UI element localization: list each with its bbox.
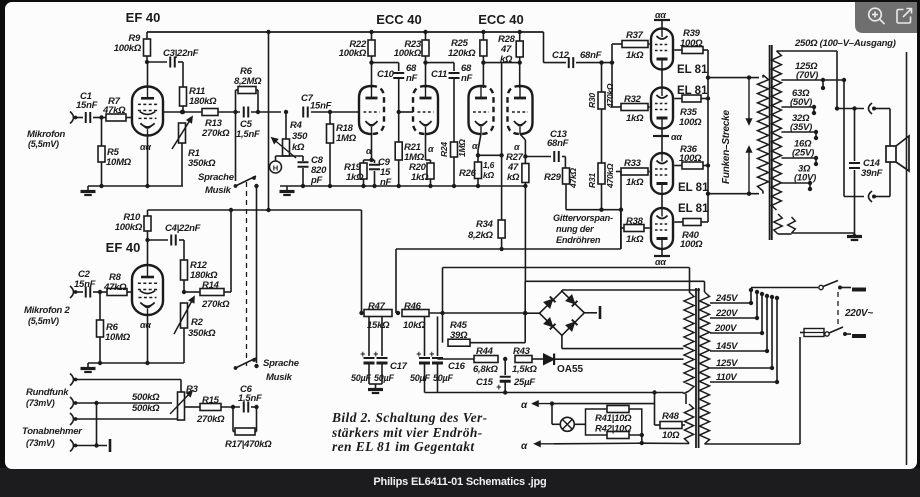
wire R48 tap <box>654 393 656 426</box>
resistor R32 1kOhm <box>621 104 648 111</box>
svg-text:8,2MΩ: 8,2MΩ <box>234 76 262 87</box>
microphone input jack 1 <box>70 112 74 124</box>
svg-text:R34: R34 <box>476 219 494 230</box>
svg-text:100kΩ: 100kΩ <box>339 48 367 59</box>
resistor R17 470kOhm (parallel) <box>232 407 234 432</box>
wire R9 to anode node <box>146 56 148 62</box>
svg-text:R30: R30 <box>587 93 597 108</box>
svg-text:ECC 40: ECC 40 <box>478 12 524 27</box>
capacitor C8 820pF <box>286 155 303 157</box>
svg-text:R14: R14 <box>202 280 220 291</box>
capacitor C12 68nF <box>544 62 567 64</box>
svg-text:C17: C17 <box>390 361 408 372</box>
capacitor C11 68nF <box>426 62 455 64</box>
svg-text:(25V): (25V) <box>792 148 814 159</box>
svg-text:1MΩ: 1MΩ <box>336 133 357 144</box>
svg-text:Endröhren: Endröhren <box>556 235 601 245</box>
resistor R47 15kOhm <box>364 310 392 317</box>
svg-text:Musik: Musik <box>205 185 232 196</box>
wire bias rail y=209.7 <box>566 209 621 211</box>
wire top bus drop to C12 <box>543 32 545 63</box>
mains terminal upper <box>852 288 866 292</box>
wire cathode ground bus stage1 <box>88 185 183 187</box>
svg-text:120kΩ: 120kΩ <box>448 48 476 59</box>
output jack upper <box>837 108 864 110</box>
svg-text:α: α <box>521 441 528 452</box>
capacitor C10 68nF <box>372 62 399 64</box>
resistor R40 100Ohm <box>674 221 683 223</box>
svg-text:39Ω: 39Ω <box>450 330 468 341</box>
svg-text:(5,5mV): (5,5mV) <box>28 316 59 326</box>
wire selector to mains switch <box>751 287 818 289</box>
resistor R48 10Ohm <box>660 422 682 429</box>
svg-text:10kΩ: 10kΩ <box>403 320 426 331</box>
svg-text:R47: R47 <box>368 301 386 312</box>
svg-text:(5,5mV): (5,5mV) <box>28 139 59 149</box>
svg-text:1,5kΩ: 1,5kΩ <box>512 364 537 375</box>
svg-text:Bild 2. Schaltung des Ver-: Bild 2. Schaltung des Ver- <box>331 410 488 425</box>
output transformer secondary winding <box>772 51 782 210</box>
svg-text:R42|10Ω: R42|10Ω <box>595 424 632 435</box>
svg-text:kΩ: kΩ <box>292 142 305 153</box>
cathode V4a with R26 <box>478 134 481 150</box>
wire plate rail upper <box>707 50 709 222</box>
cathode V3b with R20 <box>425 134 427 160</box>
microphone 2 input jack <box>70 286 74 298</box>
svg-text:100kΩ: 100kΩ <box>115 222 143 233</box>
svg-text:180kΩ: 180kΩ <box>189 96 217 107</box>
svg-text:nF: nF <box>461 73 473 84</box>
triode V3a ECC40 <box>359 86 372 134</box>
potentiometer R1 350kOhm <box>179 123 186 143</box>
resistor R21 1MOhm <box>395 142 402 160</box>
svg-text:R26: R26 <box>459 168 477 179</box>
svg-text:350kΩ: 350kΩ <box>188 328 216 339</box>
resistor R38 1kOhm <box>624 225 644 232</box>
output tube V5 EL81 <box>651 29 673 70</box>
tap 250 Ohm wire <box>777 50 838 52</box>
power transformer heater winding <box>685 394 687 404</box>
grid stub V3b <box>397 110 401 114</box>
resistor R6 8,2MOhm (bypass) <box>235 90 237 112</box>
wire mid supply bus y=210 <box>148 209 362 211</box>
svg-text:H: H <box>273 164 278 173</box>
triode V4b ECC40 <box>508 86 521 134</box>
caption bar text <box>0 476 920 488</box>
loudspeaker <box>886 146 896 162</box>
svg-text:R46: R46 <box>404 301 422 312</box>
svg-text:EL 81: EL 81 <box>678 182 709 194</box>
svg-text:100Ω: 100Ω <box>679 117 702 128</box>
toolbar panel <box>855 2 917 33</box>
resistor R9 100kOhm <box>146 32 148 39</box>
svg-text:Tonabnehmer: Tonabnehmer <box>22 426 83 437</box>
svg-text:R44: R44 <box>476 346 494 357</box>
wire return rail y=392.5 <box>425 392 684 394</box>
resistor R28 47kOhm <box>518 30 522 34</box>
output tube V8 EL81 <box>651 208 673 249</box>
svg-text:1,6: 1,6 <box>483 160 495 170</box>
svg-text:α: α <box>366 146 372 156</box>
svg-text:R41|10Ω: R41|10Ω <box>595 413 632 424</box>
svg-text:stärkers mit vier Endröh-: stärkers mit vier Endröh- <box>331 425 483 440</box>
capacitor C9 15nF <box>372 159 375 161</box>
svg-text:OA55: OA55 <box>557 364 584 375</box>
wire plate rail lower <box>708 193 759 195</box>
capacitor C4 22nF <box>170 235 172 246</box>
svg-text:1kΩ: 1kΩ <box>626 50 644 61</box>
wire PSU rail upper y=267.5 <box>443 267 690 269</box>
svg-text:(73mV): (73mV) <box>26 398 55 408</box>
transformer core lines <box>769 45 771 240</box>
output transformer primary winding <box>758 75 769 191</box>
svg-text:R31: R31 <box>587 173 597 188</box>
wire bridge minus to C16/R45 <box>524 281 526 342</box>
svg-text:470kΩ: 470kΩ <box>605 163 615 189</box>
open external icon <box>897 9 912 24</box>
switch Sprache/Musik (upper) <box>235 112 237 181</box>
svg-text:R37: R37 <box>626 30 644 41</box>
wire bridge plus output <box>584 312 597 314</box>
mains switch lower pole <box>825 332 829 336</box>
heater bar aa below V8 <box>661 249 663 256</box>
wire heater rail <box>683 393 685 394</box>
svg-text:1MΩ: 1MΩ <box>457 139 467 157</box>
svg-text:500kΩ: 500kΩ <box>132 392 160 403</box>
ground symbol stage2 <box>87 363 89 368</box>
svg-text:270kΩ: 270kΩ <box>201 128 230 139</box>
resistor R24 1MOhm (rotated) <box>451 142 458 157</box>
capacitor C2 15nF <box>85 287 87 298</box>
svg-text:15nF: 15nF <box>74 279 96 290</box>
svg-text:220V~: 220V~ <box>844 308 873 319</box>
wire joining jacks <box>94 401 98 405</box>
svg-text:R29: R29 <box>544 172 562 183</box>
hum balance circle H <box>270 161 282 173</box>
svg-text:C4|22nF: C4|22nF <box>165 223 201 234</box>
wire mid ground bus y=186 <box>280 185 525 187</box>
svg-text:15nF: 15nF <box>310 101 332 112</box>
bridge rectifier <box>540 291 585 335</box>
svg-text:EL 81: EL 81 <box>677 64 708 76</box>
resistor R20 1kOhm <box>427 163 434 179</box>
svg-text:α: α <box>472 141 478 151</box>
svg-text:100Ω: 100Ω <box>680 38 703 49</box>
electrolytic C16 50uF+50uF <box>424 317 426 357</box>
capacitor C3 22nF <box>169 57 171 68</box>
wire bridge AC bottom <box>561 335 563 348</box>
wire V3a anode <box>371 63 373 88</box>
electrolytic C17 50uF+50uF <box>368 317 370 357</box>
svg-text:50µF: 50µF <box>410 373 430 383</box>
resistor R37 1kOhm <box>622 41 648 48</box>
svg-text:Rundfunk: Rundfunk <box>26 387 69 398</box>
svg-text:C16: C16 <box>448 361 466 372</box>
svg-text:Mikrofon 2: Mikrofon 2 <box>24 305 70 316</box>
capacitor C6 1,5nF <box>231 405 235 409</box>
wire R27 bottom to PSU minus <box>524 183 526 282</box>
wire cathode to R34 feed <box>478 154 502 156</box>
svg-text:R48: R48 <box>662 411 680 422</box>
svg-text:500kΩ: 500kΩ <box>132 403 160 414</box>
mechanical linkage dashed <box>246 182 248 366</box>
svg-text:nF: nF <box>406 73 418 84</box>
zoom icon <box>869 8 885 24</box>
resistor R8 47kOhm <box>93 291 107 293</box>
svg-text:270kΩ: 270kΩ <box>196 414 225 425</box>
resistor R10 100kOhm <box>147 210 149 216</box>
svg-text:10MΩ: 10MΩ <box>106 157 132 168</box>
svg-text:100Ω: 100Ω <box>680 239 703 250</box>
svg-text:R38: R38 <box>626 216 644 227</box>
svg-text:ECC 40: ECC 40 <box>376 12 422 27</box>
resistor R30 470kOhm <box>601 63 603 92</box>
wire bridge AC top <box>561 290 563 291</box>
wire main B+ down to filter <box>361 210 363 313</box>
svg-text:15nF: 15nF <box>76 100 98 111</box>
svg-text:kΩ: kΩ <box>500 54 513 65</box>
input jack row 2 <box>70 397 74 409</box>
svg-text:kΩ: kΩ <box>483 170 494 180</box>
svg-text:α: α <box>521 400 528 411</box>
svg-text:8,2kΩ: 8,2kΩ <box>468 230 493 241</box>
resistor R18 1MOhm <box>329 112 331 124</box>
ground bus stage2 <box>88 362 184 364</box>
wire anode line y=112 <box>163 111 202 113</box>
svg-text:R15: R15 <box>202 395 220 406</box>
capacitor C1 15nF <box>85 112 87 123</box>
heater bar aa between V6 V7 <box>661 129 663 154</box>
svg-text:ren EL 81 im Gegentakt: ren EL 81 im Gegentakt <box>332 439 475 454</box>
resistor R29 47kOhm to bias <box>564 157 566 169</box>
ground symbol stage1 <box>87 186 89 191</box>
pilot lamp <box>551 404 553 425</box>
svg-text:250Ω (100–V–Ausgang): 250Ω (100–V–Ausgang) <box>794 38 896 49</box>
resistor R46 10kOhm <box>396 311 400 315</box>
power transformer core <box>695 288 697 448</box>
resistor R19 1kOhm <box>360 163 367 179</box>
svg-text:39nF: 39nF <box>861 168 883 179</box>
svg-text:R2: R2 <box>191 317 204 328</box>
triode V3b ECC40 <box>413 86 426 134</box>
svg-text:C11: C11 <box>431 69 447 80</box>
scan edge line <box>906 52 908 465</box>
wire switch bus vertical x=256.5 <box>256 186 258 363</box>
output jack lower <box>844 196 864 198</box>
cathode wire of V2 <box>147 315 149 363</box>
resistor R36 100Ohm <box>674 165 682 167</box>
capacitor C7 15nF <box>302 107 304 118</box>
cathode V4b to C13 node <box>520 134 525 140</box>
svg-text:R24: R24 <box>439 142 449 157</box>
svg-text:α: α <box>428 144 434 154</box>
svg-text:15kΩ: 15kΩ <box>367 320 390 331</box>
svg-text:68nF: 68nF <box>547 138 569 149</box>
ground symbol output <box>854 231 856 236</box>
resistor R34 8,2kOhm <box>501 186 503 220</box>
output tube V6 EL81 <box>651 88 673 129</box>
svg-text:350: 350 <box>292 131 308 142</box>
resistor R23 100kOhm <box>423 30 427 34</box>
wire bias feed to lower grids <box>620 172 622 250</box>
diode OA55 <box>544 354 555 365</box>
input jack row 3 <box>70 413 74 425</box>
svg-text:1,5nF: 1,5nF <box>238 393 262 404</box>
wire selected tap to jack lower <box>843 80 845 197</box>
resistor R11 180kOhm <box>180 87 187 106</box>
resistor R45 39Ohm <box>442 313 444 343</box>
resistor R6 10MOhm (grid leak) <box>98 290 102 294</box>
svg-text:(10V): (10V) <box>794 173 816 184</box>
svg-text:68nF: 68nF <box>580 50 602 61</box>
svg-text:47kΩ: 47kΩ <box>102 105 126 116</box>
svg-text:nF: nF <box>380 177 392 188</box>
svg-text:nung der: nung der <box>556 224 594 234</box>
svg-text:1,5nF: 1,5nF <box>236 129 260 140</box>
svg-text:100Ω: 100Ω <box>679 153 702 164</box>
svg-text:Funken–Strecke: Funken–Strecke <box>721 110 732 184</box>
svg-text:1kΩ: 1kΩ <box>626 234 644 245</box>
svg-text:100kΩ: 100kΩ <box>114 43 142 54</box>
resistor R26 1,6kOhm <box>475 162 482 179</box>
svg-text:50µF: 50µF <box>374 373 394 383</box>
wire C3 to R11 <box>182 62 184 87</box>
wire PSU rail y=281.3 <box>525 280 704 282</box>
svg-text:270kΩ: 270kΩ <box>201 299 230 310</box>
svg-text:Gittervorspan-: Gittervorspan- <box>553 213 613 223</box>
svg-text:6,8kΩ: 6,8kΩ <box>473 364 498 375</box>
resistor R39 100Ohm <box>674 49 682 51</box>
resistor R44 6,8kOhm <box>438 358 475 360</box>
svg-text:47kΩ: 47kΩ <box>568 168 578 189</box>
mains terminal lower <box>852 334 866 338</box>
resistor R35 100Ohm <box>674 98 682 100</box>
resistors R41 R42 10Ohm loop <box>586 409 642 435</box>
svg-text:C15: C15 <box>476 377 494 388</box>
secondary low winding bottom <box>774 214 782 234</box>
mains switch upper pole <box>819 285 823 289</box>
potentiometer R2 350kOhm <box>181 303 188 328</box>
svg-text:100kΩ: 100kΩ <box>394 48 422 59</box>
spark gap Funken-Strecke <box>747 75 751 79</box>
svg-text:αα: αα <box>655 257 666 267</box>
switch Sprache/Musik (lower) <box>234 366 238 370</box>
switch linkage dashed <box>837 292 839 328</box>
svg-text:R17|470kΩ: R17|470kΩ <box>225 439 272 450</box>
wire V3b anode <box>425 63 427 88</box>
svg-text:Musik: Musik <box>266 372 293 383</box>
pentode V1 EF40 <box>147 62 149 87</box>
pickup input jack (Tonabnehmer) <box>70 440 74 452</box>
wire stage2 output up to node <box>224 291 231 293</box>
resistor R12 180kOhm <box>183 240 185 260</box>
svg-text:50µF: 50µF <box>433 373 453 383</box>
svg-text:Sprache: Sprache <box>263 358 300 369</box>
svg-text:25µF: 25µF <box>513 377 535 388</box>
svg-text:αα: αα <box>671 132 682 142</box>
resistor R7 47kOhm <box>93 117 106 119</box>
svg-text:αα: αα <box>140 320 151 330</box>
svg-text:EF 40: EF 40 <box>126 10 161 25</box>
potentiometer R4 350kOhm <box>284 110 288 114</box>
svg-text:C3|22nF: C3|22nF <box>163 48 199 59</box>
wire plate node to divider <box>483 62 519 64</box>
potentiometer R3 <box>180 380 182 393</box>
svg-text:pF: pF <box>310 175 323 186</box>
svg-text:C12: C12 <box>552 50 570 61</box>
radio input jack (Rundfunk) <box>70 374 74 386</box>
wire filter rail to rectifier <box>429 312 525 314</box>
svg-text:EF 40: EF 40 <box>106 240 141 255</box>
svg-text:470kΩ: 470kΩ <box>605 83 615 109</box>
svg-text:C10: C10 <box>377 69 395 80</box>
wire R25 node down to V4a plate <box>482 63 484 88</box>
wire top supply bus y=32 <box>147 31 544 33</box>
cathode V3a with R19 C9 <box>371 134 373 160</box>
svg-text:R43: R43 <box>513 346 531 357</box>
capacitor C14 39nF <box>852 106 856 110</box>
resistor R14 270kOhm <box>184 291 200 293</box>
svg-text:1kΩ: 1kΩ <box>626 113 644 124</box>
resistor R25 120kOhm <box>481 30 485 34</box>
resistor R13 270kOhm <box>202 109 218 116</box>
wire B+ vertical from top bus <box>268 32 270 210</box>
svg-text:1kΩ: 1kΩ <box>346 172 364 183</box>
svg-text:αα: αα <box>140 142 151 152</box>
resistor R33 1kOhm <box>621 168 648 175</box>
svg-text:350kΩ: 350kΩ <box>188 158 216 169</box>
svg-text:R4: R4 <box>290 120 303 131</box>
svg-text:1kΩ: 1kΩ <box>411 172 429 183</box>
heater bar aa above tube V5 <box>661 20 663 29</box>
svg-text:10Ω: 10Ω <box>662 430 680 441</box>
output tube V7 EL81 <box>651 153 673 194</box>
power transformer mains winding <box>700 292 710 444</box>
svg-text:R33: R33 <box>624 158 642 169</box>
svg-text:R32: R32 <box>624 94 642 105</box>
wire cathode of V1 <box>147 136 149 186</box>
ground symbol filter <box>375 384 377 389</box>
svg-text:α: α <box>514 142 520 152</box>
ground symbol mid bus <box>286 186 288 191</box>
resistor R5 10MOhm <box>99 115 103 119</box>
svg-text:(73mV): (73mV) <box>26 438 55 448</box>
fuse <box>800 332 804 334</box>
svg-text:Sprache: Sprache <box>198 172 235 183</box>
resistor R15 270kOhm <box>185 406 200 408</box>
svg-text:47kΩ: 47kΩ <box>103 282 127 293</box>
resistor R27 47kOhm <box>524 157 526 164</box>
wire mains winding bottom <box>705 443 801 445</box>
pentode V2 EF40 <box>147 240 149 265</box>
wire C12 node feed to grids upper pair <box>611 44 613 107</box>
svg-text:kΩ: kΩ <box>507 172 520 183</box>
power transformer primary winding <box>684 292 694 391</box>
svg-text:EL 81: EL 81 <box>678 203 709 215</box>
svg-text:αα: αα <box>655 10 666 20</box>
resistor R43 1,5kOhm <box>515 356 532 363</box>
wire bias lower rail y=249 <box>396 248 621 250</box>
svg-text:10MΩ: 10MΩ <box>105 332 131 343</box>
svg-text:1kΩ: 1kΩ <box>626 177 644 188</box>
capacitor C13 68nF <box>525 156 551 158</box>
terminator plug <box>109 439 112 452</box>
capacitor C15 25uF <box>503 357 507 361</box>
resistor R31 470kOhm <box>601 109 603 163</box>
triode V4a ECC40 <box>469 86 482 134</box>
capacitor C5 1,5nF <box>243 107 245 118</box>
resistor R22 100kOhm <box>369 30 373 34</box>
